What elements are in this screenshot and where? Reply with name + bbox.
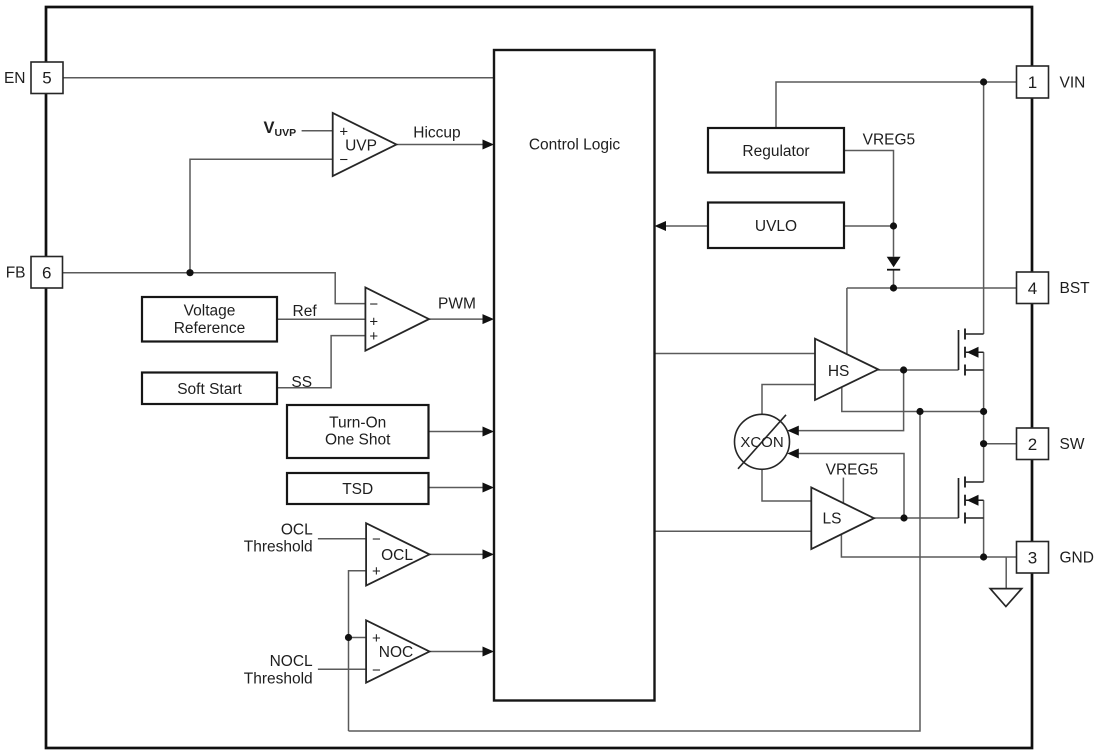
Regulator box — [708, 128, 844, 173]
wire Turn-On One Shot to Control Logic — [429, 431, 488, 433]
svg-text:TSD: TSD — [342, 481, 373, 498]
wire TSD to Control Logic — [429, 487, 488, 489]
wire switch node down to LS FET drain — [983, 412, 985, 483]
wire bottom sense rail to switch node — [349, 412, 921, 732]
svg-text:PWM: PWM — [438, 296, 476, 313]
svg-text:SW: SW — [1060, 436, 1085, 453]
svg-text:Threshold: Threshold — [244, 539, 313, 556]
wire BST supply drop to HS driver — [846, 288, 848, 354]
node GND junction — [980, 553, 987, 560]
svg-text:+: + — [369, 328, 378, 345]
node LS output junction — [900, 514, 907, 521]
arrow TSD into Control Logic — [483, 483, 495, 493]
svg-text:OCL: OCL — [381, 547, 413, 564]
wire Control Logic to HS driver input — [655, 353, 816, 355]
svg-text:6: 6 — [42, 263, 51, 282]
TSD box — [287, 473, 429, 504]
wire FB pin to error amp inverting input — [63, 273, 366, 304]
svg-text:−: − — [372, 662, 381, 679]
node BST junction — [890, 284, 897, 291]
svg-text:Hiccup: Hiccup — [413, 124, 460, 141]
transistor Q2 low-side MOSFET — [959, 477, 984, 524]
wire NOCL Threshold to NOC comparator — [318, 668, 366, 670]
pin 3 GND — [1017, 542, 1049, 574]
svg-text:−: − — [372, 531, 381, 548]
wire HS driver return to switch node — [842, 387, 984, 411]
svg-text:Regulator: Regulator — [742, 143, 809, 160]
node switch node junction left — [916, 408, 923, 415]
XCON cross-conduction block — [735, 414, 790, 469]
svg-text:UVLO: UVLO — [755, 218, 797, 235]
wire Control Logic to LS driver input — [655, 530, 812, 532]
wire OCL Threshold to OCL comparator — [318, 538, 366, 540]
wire LS output to low-side FET gate — [874, 517, 959, 519]
node VREG5/UVLO junction — [890, 222, 897, 229]
svg-text:BST: BST — [1060, 280, 1091, 297]
svg-text:HS: HS — [828, 363, 850, 380]
wire FB branch to UVP inverting input — [190, 159, 333, 272]
wire SS: Soft Start to error amp — [277, 336, 365, 388]
wire LS FET source/body to GND line — [983, 500, 985, 557]
svg-text:Soft Start: Soft Start — [177, 381, 242, 398]
wire LS driver return to GND line — [841, 534, 1016, 557]
wire BST line to pin 4 — [847, 287, 1017, 289]
svg-text:XCON: XCON — [740, 434, 783, 451]
arrow Hiccup into Control Logic — [483, 140, 495, 150]
arrow Turn-On One Shot into Control Logic — [483, 427, 495, 437]
arrow NOC output into Control Logic — [483, 647, 495, 657]
arrow OCL output into Control Logic — [483, 549, 495, 559]
svg-text:Voltage: Voltage — [184, 303, 236, 320]
svg-text:NOCL: NOCL — [270, 653, 313, 670]
wire VREG5 supply to LS driver — [842, 478, 844, 504]
svg-text:Ref: Ref — [293, 303, 318, 320]
wire XCON to HS driver — [762, 385, 815, 415]
svg-text:OCL: OCL — [281, 521, 313, 538]
svg-text:Turn-On: Turn-On — [329, 414, 386, 431]
svg-text:4: 4 — [1028, 279, 1037, 298]
wire XCON to LS driver — [762, 469, 811, 501]
wire NOC output to Control Logic — [430, 651, 488, 653]
svg-text:Control Logic: Control Logic — [529, 136, 621, 153]
arrow UVLO into Control Logic — [655, 221, 667, 231]
wire UVLO to Control Logic — [661, 225, 708, 227]
wire UVLO to VREG5 line — [844, 225, 894, 227]
wire EN pin to Control Logic — [63, 77, 494, 79]
wire HS output to high-side FET gate — [878, 369, 958, 371]
node VIN rail junction — [980, 78, 987, 85]
Turn-On One Shot box — [287, 405, 429, 458]
svg-text:+: + — [372, 563, 381, 580]
wire Ref: Voltage Reference to error amp — [277, 318, 365, 320]
node FB junction — [186, 269, 193, 276]
diode D1 bootstrap — [887, 257, 901, 270]
wire OCL non-inverting input sense line — [349, 571, 367, 731]
wire HS output to XCON input 1 — [791, 370, 904, 431]
wire VREG5: Regulator output down to diode — [844, 151, 894, 257]
wire diode cathode to BST junction — [893, 270, 895, 288]
svg-text:Threshold: Threshold — [244, 670, 313, 687]
wire PWM: error amp output to Control Logic — [429, 318, 487, 320]
svg-text:SS: SS — [291, 374, 312, 391]
Voltage Reference box — [142, 297, 277, 342]
svg-text:1: 1 — [1028, 73, 1037, 92]
wire SW pin stub — [984, 443, 1017, 445]
node HS output junction — [900, 366, 907, 373]
svg-text:GND: GND — [1060, 550, 1094, 567]
wire ground symbol stem — [1005, 557, 1007, 588]
wire NOC non-inverting input stub — [349, 637, 367, 639]
pin 4 BST — [1017, 272, 1049, 304]
svg-text:LS: LS — [823, 511, 842, 528]
arrow XCON input 2 — [787, 449, 799, 459]
svg-text:3: 3 — [1028, 548, 1037, 567]
svg-text:NOC: NOC — [379, 644, 413, 661]
Control Logic box U-CTRL — [494, 50, 655, 701]
arrow PWM into Control Logic — [483, 314, 495, 324]
wire Regulator to VIN pin — [776, 82, 1017, 128]
svg-text:UVP: UVP — [345, 137, 377, 154]
svg-text:VREG5: VREG5 — [863, 132, 916, 149]
UVLO box — [708, 203, 844, 249]
pin 6 FB — [31, 257, 63, 289]
svg-text:VIN: VIN — [1060, 74, 1086, 91]
op-amp LS driver — [811, 488, 874, 550]
ground symbol — [990, 589, 1022, 607]
wire Hiccup: UVP output to Control Logic — [396, 144, 487, 146]
pin 5 EN — [31, 62, 63, 94]
svg-text:−: − — [369, 296, 378, 313]
arrow XCON input 1 — [787, 426, 799, 436]
op-amp NOC comparator — [366, 620, 429, 682]
wire VIN rail down to HS FET drain — [983, 82, 985, 334]
svg-text:VREG5: VREG5 — [826, 462, 879, 479]
wire HS FET source/body to switch node — [983, 352, 985, 411]
transistor Q1 high-side MOSFET — [959, 329, 984, 376]
node SW pin junction — [980, 440, 987, 447]
svg-text:5: 5 — [42, 69, 51, 88]
op-amp HS driver — [815, 339, 878, 400]
svg-text:FB: FB — [6, 264, 26, 281]
svg-text:2: 2 — [1028, 435, 1037, 454]
wire OCL output to Control Logic — [430, 553, 488, 555]
node sense junction — [345, 634, 352, 641]
op-amp UVP comparator — [333, 113, 397, 176]
pin 2 SW — [1017, 428, 1049, 460]
svg-text:One Shot: One Shot — [325, 432, 391, 449]
svg-text:Reference: Reference — [174, 320, 246, 337]
wire VUVP stub — [302, 130, 333, 132]
Soft Start box — [142, 373, 277, 405]
pin 1 VIN — [1017, 66, 1049, 98]
node switch node junction right — [980, 408, 987, 415]
op-amp error amplifier — [365, 288, 429, 351]
svg-text:EN: EN — [4, 70, 26, 87]
wire LS output to XCON input 2 — [791, 454, 905, 519]
op-amp OCL comparator — [366, 523, 429, 585]
